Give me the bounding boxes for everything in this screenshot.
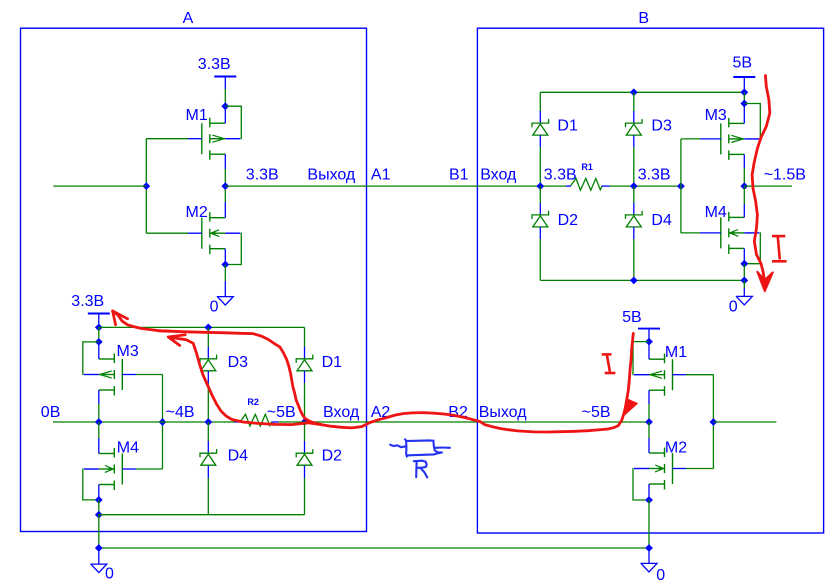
svg-text:0: 0: [105, 566, 114, 583]
wire output 1.5V: [744, 167, 806, 187]
annotation red current I block B top: [772, 236, 787, 261]
wire M4B gate lead: [681, 232, 721, 234]
svg-text:D2: D2: [558, 212, 579, 229]
annotation letter R: [414, 461, 427, 478]
svg-text:M1: M1: [665, 344, 687, 361]
power 5V block B bottom: [622, 309, 660, 341]
svg-text:M3: M3: [705, 107, 727, 124]
svg-text:M1: M1: [186, 107, 208, 124]
node gate B bottom: [710, 418, 718, 426]
svg-text:А: А: [183, 10, 194, 27]
wire M2B drain pin: [648, 422, 650, 453]
annotation red current I block B bottom: [602, 354, 616, 373]
wire M1 drain pin: [224, 106, 226, 123]
wire B-top node join: [743, 92, 745, 103]
node bridge B midright: [630, 182, 638, 190]
label 3.3V right of R1: [638, 167, 671, 184]
wire M1 gate lead: [146, 138, 202, 140]
wire M3A bulk loop: [83, 342, 99, 375]
annotation red arrow to 3.3V: [113, 311, 170, 331]
svg-text:3.3В: 3.3В: [638, 167, 671, 184]
node bridge A midright: [301, 418, 309, 426]
node bridge B bottomright: [630, 277, 638, 285]
annotation red arrow down block B top: [757, 272, 773, 291]
label Vhod bottom: [323, 404, 360, 421]
wire rail bottom: [279, 421, 650, 423]
wire gate vertical B top: [680, 139, 682, 233]
node A-top output: [221, 182, 229, 190]
svg-text:Выход: Выход: [479, 404, 528, 421]
transistor M1: [186, 107, 241, 160]
wire M4A source pin: [98, 485, 100, 500]
svg-text:M2: M2: [186, 204, 208, 221]
label ~4V: [166, 404, 195, 421]
power 5V block B top: [733, 55, 756, 93]
node bridge B midleft: [536, 182, 544, 190]
diode D4 block B: [626, 186, 672, 280]
wire M3A source pin: [98, 390, 100, 422]
wire A-bot to bridge bottom: [98, 500, 100, 515]
wire M3A drain pin: [98, 342, 100, 359]
ground A bottom: [91, 548, 114, 583]
svg-text:R1: R1: [581, 162, 593, 172]
wire M4A gate lead: [122, 468, 162, 470]
wire M3B source pin: [743, 154, 745, 186]
wire M4B source pin: [743, 248, 745, 263]
wire M2 source pin: [224, 249, 226, 265]
wire M2 bulk loop: [225, 233, 241, 264]
wire M1B bulk loop: [633, 342, 649, 375]
block A label: [183, 10, 194, 27]
node A-bot bulk join: [95, 338, 103, 346]
transistor M1 block B: [634, 344, 687, 396]
svg-text:5В: 5В: [622, 309, 642, 326]
node bridge B topright: [630, 88, 638, 96]
wire A-bot to ground bus: [98, 515, 100, 548]
wire bridge A top: [99, 327, 305, 347]
node ground bus A: [95, 544, 103, 552]
diode D2 block A: [296, 422, 342, 515]
transistor M2: [186, 204, 241, 254]
wire M1 bulk loop: [225, 106, 241, 139]
wire M3B drain pin: [743, 104, 745, 124]
wire M3B bulk loop: [744, 104, 760, 139]
svg-text:3.3В: 3.3В: [198, 56, 231, 73]
wire M4B drain pin: [743, 186, 745, 217]
transistor M3 block A: [84, 343, 139, 396]
power 3.3V block A top: [198, 56, 237, 106]
transistor M4 block A: [84, 440, 139, 490]
annotation red arrow to wire B: [622, 399, 637, 417]
svg-text:D1: D1: [557, 118, 578, 135]
label R2: [247, 397, 259, 407]
node A-top source: [221, 261, 229, 269]
svg-text:0: 0: [210, 299, 219, 316]
wire gate vertical B bottom: [712, 375, 714, 469]
ground B top: [729, 280, 753, 315]
label 3.3V on output: [246, 167, 279, 184]
wire M1 source pin: [224, 154, 226, 186]
transistor M2 block B: [634, 440, 687, 490]
wire M1B drain pin: [648, 342, 650, 360]
node ground bus B: [645, 544, 653, 552]
diode D3 block B: [626, 92, 672, 186]
wire M2B bulk loop: [633, 469, 649, 501]
label Vyhod bottom: [479, 404, 528, 421]
annotation red stroke block B top: [752, 76, 770, 282]
label A1: [371, 167, 391, 184]
wire R1 to D3 node: [610, 185, 681, 187]
svg-text:3.3В: 3.3В: [71, 293, 104, 310]
transistor M3 block B: [705, 107, 760, 160]
resistor R2: [235, 414, 279, 426]
svg-text:D3: D3: [228, 354, 249, 371]
resistor R1: [566, 162, 610, 190]
wire B-bot to ground bus: [648, 500, 650, 548]
label ~5V block A: [267, 404, 296, 421]
wire M1B gate lead: [673, 374, 714, 376]
block B box: [477, 28, 823, 533]
svg-text:D1: D1: [322, 354, 343, 371]
node bridge A midleft: [204, 418, 212, 426]
block B label: [638, 10, 649, 27]
node A-bot bridge join: [95, 324, 103, 332]
wire bridge B top: [540, 92, 744, 111]
wire M4A bulk loop: [83, 469, 99, 500]
node A-top gate: [142, 182, 150, 190]
node bridge A topleft: [204, 324, 212, 332]
node gate B top: [677, 182, 685, 190]
svg-text:M4: M4: [117, 440, 139, 457]
wire M2B gate lead: [673, 468, 714, 470]
node A-bot bottom join: [95, 511, 103, 519]
label Vhod top: [480, 167, 517, 184]
wire gate vertical A top: [145, 139, 147, 234]
svg-text:~5В: ~5В: [267, 404, 296, 421]
svg-text:В: В: [638, 10, 649, 27]
transistor M4 block B: [705, 204, 760, 254]
svg-text:~5В: ~5В: [582, 404, 611, 421]
wire bridge A bottom: [99, 514, 305, 516]
wire ground bus: [99, 547, 649, 549]
svg-text:0В: 0В: [41, 404, 61, 421]
label Vyhod top: [307, 167, 356, 184]
svg-text:3.3В: 3.3В: [246, 167, 279, 184]
node B-top bridge join: [740, 88, 748, 96]
wire output rail top: [225, 185, 566, 187]
wire M3A gate lead: [122, 374, 162, 376]
wire M1B source pin: [648, 390, 650, 422]
diode D1 block A: [296, 347, 342, 422]
svg-text:В1: В1: [449, 167, 469, 184]
diode D4 block A: [200, 422, 248, 515]
svg-text:M4: M4: [705, 204, 727, 221]
label B1: [449, 167, 469, 184]
annotation resistor sketch: [390, 439, 450, 457]
ground B bottom: [641, 548, 665, 584]
node B-top bottom join: [740, 277, 748, 285]
wire output stub B bottom: [713, 421, 776, 423]
svg-text:~4В: ~4В: [166, 404, 195, 421]
svg-text:D3: D3: [651, 118, 672, 135]
svg-text:M3: M3: [117, 343, 139, 360]
wire gate vertical A bottom: [162, 375, 164, 470]
svg-text:D4: D4: [651, 212, 672, 229]
node B-top output: [740, 182, 748, 190]
svg-text:3.3В: 3.3В: [544, 167, 577, 184]
node B-bot bulk join: [645, 338, 653, 346]
annotation red run block A: [160, 331, 322, 425]
diode D2 block B: [532, 186, 578, 280]
svg-text:0: 0: [729, 299, 738, 316]
annotation red arrow mid: [168, 333, 633, 432]
svg-text:D2: D2: [322, 448, 343, 465]
wire B-top to bridge bottom: [743, 264, 745, 281]
wire M4B bulk loop: [744, 233, 760, 264]
wire M2 gate lead: [146, 232, 202, 234]
svg-text:Выход: Выход: [307, 167, 356, 184]
svg-text:D4: D4: [228, 448, 249, 465]
diode D1 block B: [532, 111, 578, 186]
node A-top drain: [221, 102, 229, 110]
svg-text:Вход: Вход: [480, 167, 517, 184]
node B-bot junction: [645, 418, 653, 426]
label A2: [371, 404, 391, 421]
ground A top: [210, 265, 234, 316]
svg-text:~1.5В: ~1.5В: [764, 167, 806, 184]
node A-bot source: [95, 496, 103, 504]
label B2: [448, 404, 468, 421]
label ~5V block B: [582, 404, 611, 421]
node B-bot source: [645, 496, 653, 504]
wire bridge B bottom: [540, 279, 744, 281]
svg-text:А1: А1: [371, 167, 391, 184]
wire input A bottom: [53, 421, 235, 423]
wire M3B gate lead: [681, 138, 721, 140]
svg-text:R2: R2: [247, 397, 259, 407]
node gate A bottom: [159, 418, 167, 426]
wire input A top: [53, 185, 146, 187]
label 3.3V left of R1: [544, 167, 577, 184]
svg-text:Вход: Вход: [323, 404, 360, 421]
block A box: [21, 28, 367, 531]
power 3.3V block A bottom: [71, 293, 110, 327]
diode D3 block A: [200, 327, 248, 422]
svg-text:5В: 5В: [733, 55, 753, 72]
label 0V: [41, 404, 61, 421]
wire A-bot node join: [98, 327, 100, 342]
node B-top source: [740, 260, 748, 268]
svg-text:0: 0: [656, 567, 665, 584]
wire M2 drain pin: [224, 186, 226, 218]
wire M4A drain pin: [98, 422, 100, 454]
wire M2B source pin: [648, 484, 650, 500]
svg-text:M2: M2: [665, 440, 687, 457]
node B-top bulk join: [740, 100, 748, 108]
node A-bot junction: [95, 418, 103, 426]
